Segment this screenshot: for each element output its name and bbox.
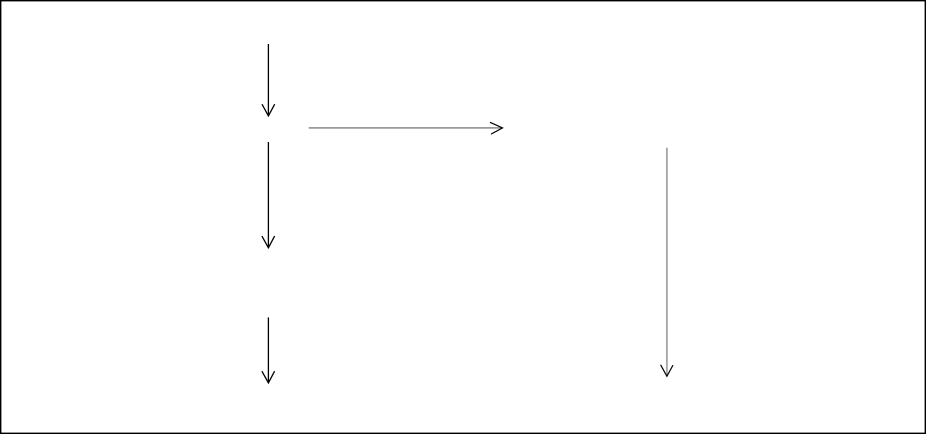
arrow B: vertical flow arrow, second in left column bbox=[262, 142, 275, 248]
arrow A: vertical flow arrow, top-left column bbox=[262, 44, 275, 116]
arrow C: vertical flow arrow, third in left column bbox=[262, 317, 275, 383]
arrow D: horizontal branch arrow (gray shaft, black chevron) bbox=[309, 122, 503, 134]
arrow E: long vertical arrow, right column (gray shaft, black chevron) bbox=[661, 148, 673, 377]
